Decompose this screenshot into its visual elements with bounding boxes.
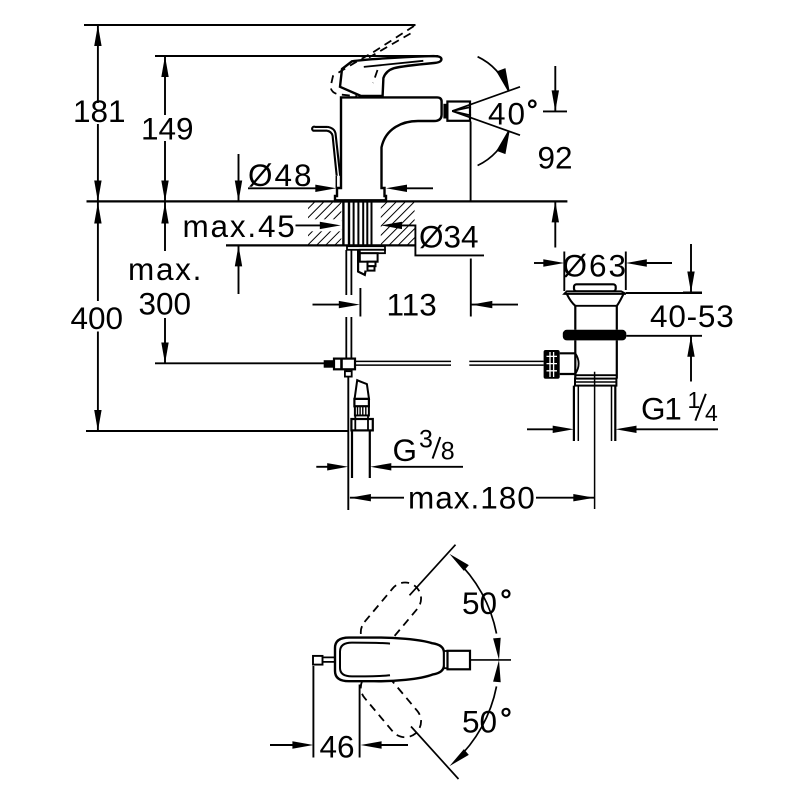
svg-text:50: 50 bbox=[462, 585, 497, 621]
raised lever position dashed outline bbox=[331, 26, 415, 96]
arrow 40-53 bottom bbox=[687, 336, 694, 357]
adapter step 2 bbox=[368, 262, 376, 267]
arrow max300 bottom bbox=[161, 343, 168, 364]
hose collar bbox=[354, 399, 369, 406]
supply pipe end flare bbox=[345, 371, 352, 376]
dim 113 line right bbox=[471, 304, 518, 306]
dim 92 tick bbox=[543, 110, 567, 112]
dim max180 line right bbox=[536, 497, 594, 499]
arrow G38 right bbox=[370, 463, 391, 470]
dim max300 bottom reference line bbox=[155, 362, 325, 364]
pop-up rod left segment bbox=[355, 361, 451, 365]
dim 113 extension line left bbox=[359, 288, 361, 317]
swung lever dashed outline upper bbox=[354, 576, 427, 655]
angle ray upper 50 bbox=[410, 545, 456, 596]
popup side port inner curve bbox=[575, 353, 578, 374]
dim o48 right tail bbox=[407, 187, 433, 189]
lever handle bbox=[340, 56, 441, 96]
dim max180 line left bbox=[350, 497, 404, 499]
svg-text:Ø63: Ø63 bbox=[563, 248, 629, 284]
arrow max45 leader bbox=[320, 222, 341, 229]
dim max45 leader line bbox=[296, 224, 321, 226]
popup flange bbox=[564, 291, 626, 294]
arrow 149 bottom bbox=[161, 181, 168, 202]
dim o63 extension left bbox=[563, 252, 565, 292]
plan centerline bbox=[471, 659, 512, 661]
dim o34 leader bbox=[402, 225, 484, 255]
hose tilted connector piece bbox=[355, 380, 369, 399]
pop-up rod knob side view (hook) bbox=[312, 127, 340, 176]
mousseur connector bbox=[444, 104, 448, 118]
arrow max180 right bbox=[573, 494, 594, 501]
svg-text:50: 50 bbox=[462, 704, 497, 740]
dim G38 leader right bbox=[391, 466, 463, 468]
pop-up rod fitting main block bbox=[334, 359, 355, 370]
hose hex nut bbox=[351, 419, 372, 430]
spout outlet extension line upper bbox=[470, 122, 472, 201]
arrow arc upper top bbox=[450, 554, 469, 571]
plan body outline bbox=[335, 638, 444, 682]
dim 92 line bottom bbox=[554, 201, 556, 247]
pop-up rod right segment bbox=[469, 361, 543, 365]
svg-text:8: 8 bbox=[441, 437, 455, 465]
dim 40-53 flange extension bbox=[626, 292, 702, 294]
svg-text:3: 3 bbox=[419, 426, 433, 454]
svg-text:400: 400 bbox=[71, 300, 124, 336]
popup side port bbox=[560, 353, 576, 374]
dim 181 line bbox=[97, 25, 99, 201]
arrow arc upper bottom bbox=[493, 638, 501, 660]
adapter tail flap bbox=[358, 251, 366, 275]
svg-text:max.45: max.45 bbox=[183, 208, 297, 244]
svg-text:113: 113 bbox=[387, 287, 437, 323]
popup body horizontal line bbox=[575, 374, 617, 376]
arrow G38 left bbox=[327, 463, 348, 470]
SIDEVIEW bbox=[84, 25, 567, 478]
svg-text:Ø48: Ø48 bbox=[248, 157, 314, 193]
countertop line bbox=[87, 200, 568, 202]
arc upper 50 bbox=[455, 559, 497, 634]
dim 40-53 bottom line bbox=[690, 336, 692, 381]
svg-text:92: 92 bbox=[538, 140, 573, 176]
arrow o63 right bbox=[626, 259, 647, 266]
svg-text:46: 46 bbox=[320, 729, 355, 765]
supply pipe lower segment bbox=[346, 369, 351, 371]
popup lower body walls bbox=[575, 340, 617, 378]
arrow o34 leader bbox=[381, 222, 402, 229]
dim 149 line bbox=[164, 56, 166, 201]
counter hatch left block bbox=[308, 202, 341, 245]
spray angle ray lower bbox=[452, 111, 520, 135]
arrow max180 left bbox=[350, 494, 371, 501]
arrow max300 top bbox=[161, 203, 168, 224]
svg-text:1: 1 bbox=[688, 387, 701, 413]
arrow max45 top bbox=[235, 181, 242, 202]
counter hatch right block bbox=[381, 202, 415, 245]
plan spout neck bbox=[444, 651, 448, 668]
plan mousseur square bbox=[448, 651, 471, 670]
adapter step 1 bbox=[360, 253, 378, 262]
arrow o48 left bbox=[315, 185, 336, 192]
dim 46 line right bbox=[381, 744, 408, 746]
popup neck taper left bbox=[567, 294, 576, 306]
arrow 46 left bbox=[292, 741, 313, 748]
label G114 slash bbox=[695, 394, 705, 421]
arrow arc lower bottom bbox=[450, 749, 469, 766]
arrow 46 right bbox=[361, 741, 382, 748]
svg-text:max.180: max.180 bbox=[408, 480, 536, 516]
40deg lower arc bbox=[478, 132, 509, 166]
arrow 400 bottom bbox=[94, 410, 101, 431]
dim 40-53 oring extension bbox=[626, 335, 702, 337]
mousseur bbox=[447, 102, 470, 121]
plan lever end block bbox=[313, 656, 323, 665]
arrow G114 right bbox=[616, 426, 637, 433]
arc lower 50 bbox=[455, 686, 497, 761]
svg-text:4: 4 bbox=[705, 400, 718, 426]
pop-up rod fitting small block bbox=[325, 361, 335, 367]
label G38 slash bbox=[433, 437, 441, 459]
40deg upper arc bbox=[478, 57, 509, 91]
40deg upper arc arrowhead bbox=[498, 69, 509, 90]
faucet body bbox=[335, 97, 442, 201]
dim max45 vertical lines bbox=[238, 154, 240, 294]
pop-up rod fitting inner line bbox=[340, 359, 343, 370]
svg-text:300: 300 bbox=[139, 286, 192, 322]
popup knurled nut texture bbox=[547, 352, 558, 377]
arrow o48 right bbox=[386, 185, 407, 192]
arrow 92 top bbox=[552, 90, 559, 111]
dim 400 line bbox=[97, 202, 99, 431]
popup drain tube outer walls bbox=[574, 386, 615, 441]
arrow arc lower top bbox=[493, 660, 501, 682]
dim o63 line right bbox=[646, 262, 672, 264]
mounting washer band 1 bbox=[347, 246, 385, 250]
popup flange bottom line bbox=[564, 293, 626, 295]
white channel for max45 leader through hatch bbox=[294, 219, 341, 231]
label 40 degree circle bbox=[529, 101, 536, 108]
dim 46 extension right bbox=[359, 685, 361, 758]
arrow G114 left bbox=[553, 426, 574, 433]
dim 46 line left bbox=[270, 744, 293, 746]
svg-text:149: 149 bbox=[141, 111, 194, 147]
arrow 40-53 top bbox=[687, 272, 694, 293]
pop-up rod knob tick bbox=[335, 176, 337, 188]
arrow 400 top bbox=[94, 203, 101, 224]
dim o48 underline bbox=[248, 187, 316, 189]
arrow 181 bottom bbox=[94, 181, 101, 202]
angle ray lower 50 bbox=[411, 727, 459, 780]
dim 46 extension left bbox=[312, 666, 314, 758]
dim max180 extension line bbox=[347, 376, 349, 510]
popup neck joint line bbox=[575, 305, 617, 307]
popup neck taper right bbox=[617, 294, 624, 306]
label 50 lower degree circle bbox=[503, 709, 510, 716]
arrow 181 top bbox=[94, 25, 101, 46]
svg-text:G1: G1 bbox=[641, 390, 681, 426]
dim 113 line left bbox=[313, 304, 340, 306]
arrow o63 left bbox=[543, 259, 564, 266]
popup joint nut bbox=[575, 379, 616, 386]
popup cylinder walls bbox=[575, 306, 617, 330]
spray vertex open arrowhead bbox=[452, 107, 471, 116]
plan body inner seam bbox=[340, 643, 390, 677]
dim 40-53 top line bbox=[690, 244, 692, 292]
dim o63 line left bbox=[534, 262, 544, 264]
supply pipe upper segment bbox=[346, 250, 351, 295]
svg-text:40: 40 bbox=[488, 96, 527, 132]
swung lever dashed outline lower bbox=[354, 665, 427, 744]
dim 400 bottom reference line bbox=[86, 430, 348, 432]
reference line top of raised lever (181) bbox=[84, 24, 416, 26]
popup knurled nut bbox=[544, 350, 560, 379]
arrow 92 bottom bbox=[552, 201, 559, 222]
hose hex nut facet lines bbox=[355, 419, 368, 430]
dim G114 line right bbox=[637, 428, 719, 430]
faucet shank threads below counter bbox=[343, 202, 371, 245]
lever handle inner ridge line bbox=[364, 61, 424, 67]
svg-text:Ø34: Ø34 bbox=[419, 219, 479, 255]
plan lever rod bbox=[323, 657, 336, 662]
popup centerline bbox=[594, 372, 596, 509]
dim max300 line bbox=[164, 202, 166, 364]
dim 92 line top bbox=[554, 66, 556, 111]
reference line top of lever (149) bbox=[155, 55, 438, 57]
hose tube bbox=[352, 430, 370, 478]
hose collar 2 bbox=[355, 416, 368, 420]
arrow 113 left bbox=[339, 301, 360, 308]
DIMENSIONS-SIDE bbox=[86, 25, 594, 510]
popup lift knob bbox=[574, 284, 616, 291]
hose knurled section bbox=[355, 406, 369, 415]
counter bottom line bbox=[226, 244, 415, 246]
svg-text:181: 181 bbox=[73, 93, 126, 129]
dim G38 line left bbox=[316, 466, 328, 468]
svg-text:40-53: 40-53 bbox=[650, 298, 735, 334]
svg-text:G: G bbox=[393, 432, 418, 468]
popup joint nut line bbox=[575, 381, 616, 383]
popup drain tube inner walls bbox=[578, 386, 611, 441]
POPUP bbox=[544, 284, 627, 509]
dim 40-53 top tick bbox=[683, 292, 702, 294]
arrow 113 right bbox=[471, 301, 492, 308]
PLANVIEW bbox=[313, 545, 511, 779]
mounting washer band 2 bbox=[360, 250, 385, 253]
adapter step 3 bbox=[368, 266, 375, 270]
spout outlet extension line lower bbox=[470, 259, 472, 317]
arrow max45 bottom bbox=[235, 245, 242, 266]
popup o-ring seal bbox=[563, 330, 627, 341]
spray angle ray upper bbox=[452, 87, 520, 111]
supply pipe middle segment bbox=[346, 317, 351, 359]
arrow 149 top bbox=[161, 56, 168, 77]
dim G114 line left bbox=[527, 428, 553, 430]
dim o63 extension right bbox=[625, 252, 627, 291]
40deg lower arc arrowhead bbox=[498, 132, 509, 153]
label 50 upper degree circle bbox=[503, 590, 510, 597]
svg-text:max.: max. bbox=[128, 251, 203, 287]
faucet base bottom thick line bbox=[335, 199, 386, 202]
